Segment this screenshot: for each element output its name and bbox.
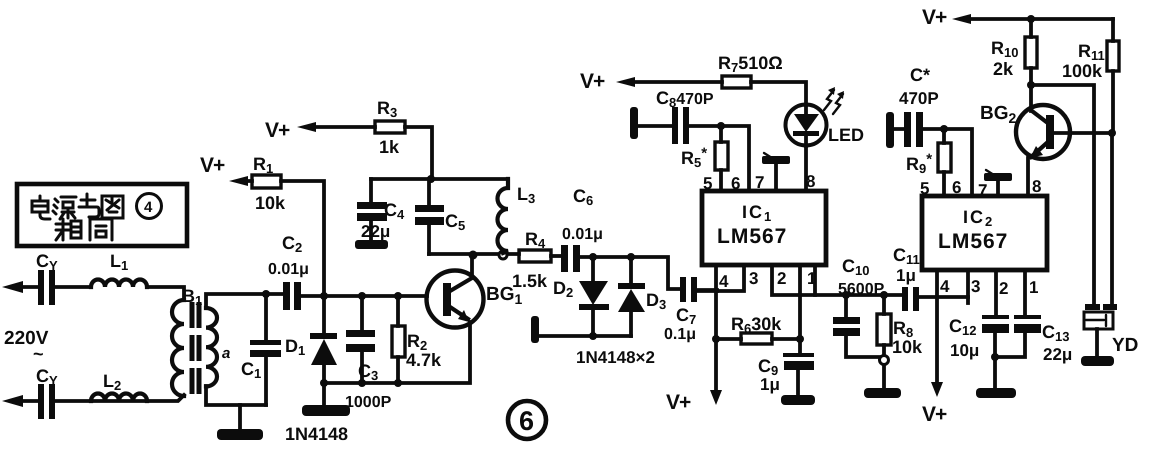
capacitor C12 (pin2) <box>995 270 996 357</box>
svg-text:10μ: 10μ <box>950 341 979 360</box>
svg-text:10k: 10k <box>892 337 923 357</box>
svg-text:7: 7 <box>755 173 764 192</box>
capacitor C3 <box>360 296 364 383</box>
svg-text:1.5k: 1.5k <box>512 271 548 291</box>
op-amp/IC U1 LM567 <box>702 191 826 265</box>
resistor R2 <box>396 296 400 383</box>
wire mains input top <box>2 281 23 293</box>
svg-text:22μ: 22μ <box>1043 345 1072 364</box>
wire tank top <box>371 177 508 181</box>
capacitor C9 <box>798 295 800 396</box>
pin7 stub/bar IC2 <box>996 181 1000 196</box>
wire emitter rail <box>324 322 470 383</box>
svg-text:a: a <box>222 345 230 362</box>
wire secondary bottom lead <box>206 386 266 405</box>
LED <box>786 105 827 146</box>
svg-text:2: 2 <box>999 279 1008 298</box>
capacitor C8 + terminal bar <box>630 107 638 139</box>
capacitor C10 <box>846 295 879 357</box>
svg-text:5: 5 <box>920 179 929 198</box>
svg-text:5600P: 5600P <box>838 281 885 298</box>
svg-text:LM567: LM567 <box>938 230 1008 253</box>
svg-text:7: 7 <box>978 181 987 200</box>
svg-text:1: 1 <box>1029 278 1038 297</box>
figure number 6 <box>508 401 546 439</box>
svg-text:0.01μ: 0.01μ <box>268 261 309 278</box>
capacitor C6 <box>561 245 568 272</box>
inductor L2 <box>91 394 147 401</box>
resistor R6 <box>716 337 800 341</box>
capacitor C13 (pin1) <box>995 270 1025 357</box>
node (C2 left junction) <box>262 290 270 298</box>
svg-text:C*: C* <box>910 65 930 85</box>
svg-text:V+: V+ <box>580 70 605 93</box>
diode D2 <box>591 257 595 336</box>
note box (power supply same as fig.4) <box>17 184 187 246</box>
wire <box>55 395 184 401</box>
capacitor C2 <box>283 282 290 310</box>
wire pin3 IC2 <box>966 270 970 303</box>
ground (below C9) <box>781 395 815 405</box>
svg-text:4: 4 <box>144 199 153 216</box>
svg-text:5: 5 <box>703 174 712 193</box>
svg-text:V+: V+ <box>200 154 225 177</box>
LED emission bolts <box>824 90 834 110</box>
wire collector node to YD left lead <box>1031 85 1094 305</box>
svg-text:4.7k: 4.7k <box>406 350 442 370</box>
svg-text:V+: V+ <box>265 119 290 142</box>
pin7 stub/bar IC1 <box>774 164 778 191</box>
svg-text:8: 8 <box>1032 177 1041 196</box>
transformer B1 primary winding <box>172 300 184 396</box>
svg-text:4: 4 <box>940 277 950 296</box>
wire to limiter <box>580 257 680 289</box>
transformer B1 secondary winding <box>206 308 217 386</box>
resistor R9* (pin5) <box>942 129 946 196</box>
resistor R3 <box>297 122 316 132</box>
capacitor CY (top) <box>38 270 44 305</box>
transformer core <box>190 302 195 394</box>
svg-text:V+: V+ <box>666 391 691 414</box>
capacitor C1 <box>264 295 268 405</box>
capacitor C* + terminal bar <box>886 112 894 148</box>
wire R11/base to YD right lead <box>1110 133 1114 305</box>
svg-text:3: 3 <box>971 277 980 296</box>
transistor BG1 <box>427 271 484 328</box>
capacitor C11 <box>902 287 908 311</box>
svg-text:R7510Ω: R7510Ω <box>718 53 783 75</box>
svg-text:3: 3 <box>749 269 758 288</box>
svg-text:4: 4 <box>719 272 729 291</box>
svg-text:1μ: 1μ <box>760 375 780 394</box>
svg-text:R630k: R630k <box>731 314 782 336</box>
svg-text:LM567: LM567 <box>717 225 787 248</box>
svg-text:0.01μ: 0.01μ <box>562 226 603 243</box>
capacitor C4 <box>369 179 373 241</box>
diode D3 <box>629 257 633 336</box>
svg-text:6: 6 <box>519 406 534 436</box>
capacitor CY (bottom) <box>38 384 44 419</box>
wire <box>55 285 91 289</box>
capacitor C7 <box>680 277 686 302</box>
svg-text:10k: 10k <box>255 193 286 213</box>
svg-text:1: 1 <box>807 269 816 288</box>
ground (below transformer) <box>238 405 242 430</box>
resistor R10 <box>1029 19 1033 85</box>
diode D1 <box>322 296 326 383</box>
svg-text:1μ: 1μ <box>896 266 916 285</box>
wire secondary top lead <box>206 294 283 308</box>
svg-text:V+: V+ <box>922 403 947 426</box>
ground (below D1) <box>322 383 326 406</box>
resistor R1 <box>229 176 248 186</box>
svg-text:6: 6 <box>731 174 740 193</box>
transistor BG2 <box>1016 105 1070 159</box>
svg-text:2k: 2k <box>993 59 1014 79</box>
IC1 pin tabs <box>716 265 815 295</box>
capacitor C5 <box>427 179 431 254</box>
ground (below C12/C13) <box>993 357 997 389</box>
wire main signal line <box>301 294 427 298</box>
wire pin4 IC2 to V+ <box>935 270 939 384</box>
svg-text:1N4148×2: 1N4148×2 <box>576 348 655 367</box>
svg-text:C8470P: C8470P <box>656 88 714 110</box>
svg-text:V+: V+ <box>922 6 947 29</box>
svg-text:LED: LED <box>828 125 864 145</box>
svg-text:~: ~ <box>33 344 44 364</box>
piezo sounder YD <box>1085 304 1100 310</box>
resistor R7 <box>616 77 635 87</box>
ground (below R8) <box>864 388 901 398</box>
svg-text:1k: 1k <box>379 137 400 157</box>
wire pin2/pin1 bus <box>800 293 903 297</box>
wire tank bottom <box>429 252 519 256</box>
svg-text:YD: YD <box>1112 335 1138 356</box>
svg-text:1N4148: 1N4148 <box>285 424 348 444</box>
svg-text:1000P: 1000P <box>345 394 392 411</box>
resistor R8 <box>882 295 886 389</box>
op-amp/IC U2 LM567 <box>922 196 1047 270</box>
svg-text:470P: 470P <box>899 89 939 108</box>
resistor R11 <box>1111 19 1115 133</box>
wire limiter bottom + terminal bar <box>536 334 631 338</box>
inductor L3 <box>498 179 508 253</box>
svg-text:0.1μ: 0.1μ <box>664 326 696 343</box>
wire <box>147 287 184 300</box>
svg-text:6: 6 <box>952 178 961 197</box>
svg-text:22μ: 22μ <box>361 222 390 241</box>
resistor R5* (pin5) <box>719 126 723 191</box>
svg-text:2: 2 <box>777 269 786 288</box>
inductor L1 <box>91 280 147 287</box>
svg-text:100k: 100k <box>1062 61 1103 81</box>
resistor R4 <box>519 250 551 262</box>
wire mains input bottom <box>2 395 23 407</box>
wire pin4 IC1 to V+ <box>697 291 717 392</box>
